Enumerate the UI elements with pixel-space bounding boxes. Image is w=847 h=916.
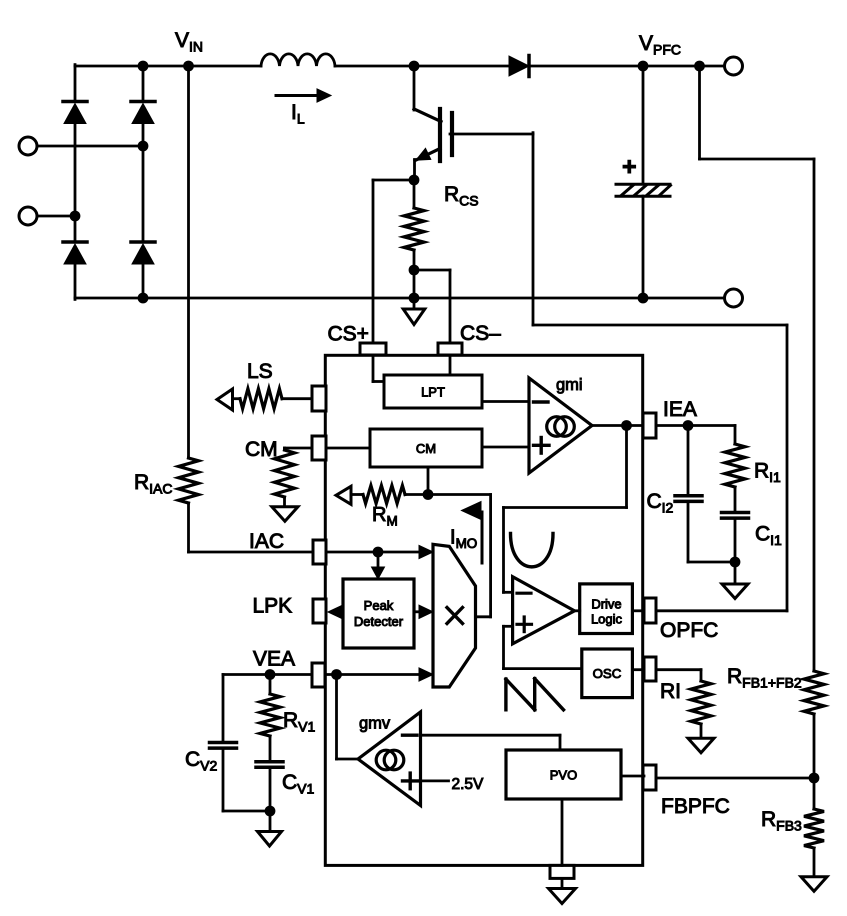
terminal return xyxy=(725,289,743,307)
pin OPFC xyxy=(644,598,656,623)
pin IAC xyxy=(313,540,326,564)
node AC2-bridge xyxy=(70,211,81,222)
node VEA internal xyxy=(331,669,342,680)
label VEA xyxy=(253,648,295,671)
wire VEA external xyxy=(223,673,312,676)
capacitor CI1 xyxy=(722,513,749,519)
svg-text:LPT: LPT xyxy=(421,385,445,400)
svg-text:Detecter: Detecter xyxy=(354,614,404,629)
label CM xyxy=(245,438,278,461)
svg-text:gmi: gmi xyxy=(556,376,583,394)
transistor Q1 emitter xyxy=(415,148,441,180)
label CS- xyxy=(460,322,501,345)
wire OSC-RI xyxy=(632,668,644,671)
svg-text:LPK: LPK xyxy=(253,595,293,618)
svg-text:Peak: Peak xyxy=(364,598,394,613)
diode D boost output xyxy=(509,56,529,77)
diode bridge D1 xyxy=(63,102,87,124)
label IMO xyxy=(450,527,477,552)
block PVO xyxy=(506,750,621,799)
wire gate-OPFC xyxy=(533,133,787,611)
svg-text:RI: RI xyxy=(660,680,681,703)
svg-text:IEA: IEA xyxy=(663,398,697,421)
gmi symbol xyxy=(547,417,575,437)
wire CM-gmi xyxy=(482,446,529,449)
label LPK xyxy=(253,595,293,618)
wire CM external xyxy=(285,448,313,450)
label LS xyxy=(247,360,273,383)
label CV2 xyxy=(185,748,218,774)
open arrow LS xyxy=(217,389,233,410)
wire CV2 upper xyxy=(222,675,225,743)
ramp waveform symbol xyxy=(506,679,564,710)
svg-text:CM: CM xyxy=(245,438,278,461)
capacitor CI2 xyxy=(675,496,702,502)
pin GND xyxy=(550,865,574,878)
svg-text:CI2: CI2 xyxy=(647,490,674,516)
svg-text:LS: LS xyxy=(247,360,273,383)
label IEA xyxy=(663,398,697,421)
resistor RIAC xyxy=(179,458,199,503)
label CI1 xyxy=(755,523,782,549)
capacitor C out polarized xyxy=(616,153,671,196)
label gmi xyxy=(556,376,583,394)
svg-text:CM: CM xyxy=(416,441,436,456)
node AC1-bridge xyxy=(138,141,149,152)
node cap top xyxy=(638,61,649,72)
resistor RV1 xyxy=(260,675,280,737)
wire RV1-CV1 xyxy=(269,736,272,761)
svg-text:VIN: VIN xyxy=(175,29,203,55)
gmi plus xyxy=(534,438,550,454)
label CI2 xyxy=(647,490,674,516)
label 2.5V xyxy=(452,776,485,793)
wire gmv out xyxy=(337,675,359,760)
node RM junction xyxy=(423,489,434,500)
svg-text:RCS: RCS xyxy=(444,183,479,209)
node RCS-rail xyxy=(409,293,420,304)
svg-text:+: + xyxy=(622,153,637,181)
wire FBPFC external xyxy=(656,777,814,780)
svg-text:RI1: RI1 xyxy=(754,460,781,486)
label RCS xyxy=(444,183,479,209)
wire comp out xyxy=(575,609,580,612)
node bridge bottom xyxy=(138,293,149,304)
svg-text:PVO: PVO xyxy=(550,768,577,783)
label RFB3 xyxy=(761,808,802,834)
svg-text:CS–: CS– xyxy=(460,322,501,345)
ground VEA comp xyxy=(258,811,282,846)
pin VEA xyxy=(312,663,325,687)
wire top rail left xyxy=(75,65,261,68)
wire CS+ path xyxy=(373,180,414,382)
label RI1 xyxy=(754,460,781,486)
label CS+ xyxy=(328,323,369,346)
pin FBPFC xyxy=(643,765,656,790)
wire AC1 xyxy=(37,145,143,148)
resistor LS external xyxy=(232,389,312,409)
gmi minus xyxy=(534,400,549,403)
wire gmi out xyxy=(592,424,643,427)
pin CM xyxy=(312,436,326,460)
svg-text:IL: IL xyxy=(291,101,305,127)
wire IEA feedback xyxy=(504,426,627,593)
svg-text:CI1: CI1 xyxy=(755,523,782,549)
arrow IMO xyxy=(462,502,483,564)
resistor RFB1FB2 xyxy=(804,671,824,714)
ground RI xyxy=(688,724,714,753)
svg-text:RV1: RV1 xyxy=(283,709,316,735)
svg-text:CV2: CV2 xyxy=(185,748,218,774)
terminal AC1 xyxy=(19,137,37,155)
terminal VPFC top xyxy=(725,57,743,75)
svg-text:CV1: CV1 xyxy=(282,771,315,797)
wire bridge right vertical xyxy=(142,66,145,298)
op-amp gmi xyxy=(529,378,592,473)
node RCS-CSminus xyxy=(409,265,420,276)
resistor RFB3 xyxy=(804,809,824,848)
pin CS+ xyxy=(360,343,386,355)
wire RCS top xyxy=(413,180,416,208)
block OSC xyxy=(582,649,633,698)
label RFB1+FB2 xyxy=(727,665,802,691)
node IEA inner xyxy=(621,420,632,431)
wire RI external xyxy=(656,670,701,681)
wire RIAC to IAC xyxy=(189,503,314,552)
arrow LPK xyxy=(328,605,343,618)
wire OPFC external xyxy=(656,609,787,612)
wire CI1 bottom xyxy=(734,518,737,562)
wire CV1 bottom xyxy=(269,767,272,811)
svg-text:Logic: Logic xyxy=(591,612,623,627)
node IEA-CI2 xyxy=(683,420,694,431)
svg-text:VEA: VEA xyxy=(253,648,295,671)
pin CS- xyxy=(438,343,462,355)
label IL xyxy=(291,101,305,127)
label IAC xyxy=(249,530,284,553)
gmv symbol xyxy=(376,750,404,770)
svg-text:gmv: gmv xyxy=(359,715,391,733)
label CV1 xyxy=(282,771,315,797)
node VIN junction1 xyxy=(138,61,149,72)
label RI xyxy=(660,680,681,703)
IC U1 body xyxy=(325,355,642,865)
label RV1 xyxy=(283,709,316,735)
svg-text:IAC: IAC xyxy=(249,530,284,553)
wire CMpin-CMblock xyxy=(326,447,370,450)
node collector junction xyxy=(409,61,420,72)
wire cap upper xyxy=(642,66,645,184)
capacitor CV1 xyxy=(256,762,283,768)
wire IAC internal xyxy=(326,545,433,558)
node IAC internal xyxy=(373,547,384,558)
wire CM bottom xyxy=(427,467,430,495)
resistor CM external xyxy=(275,450,295,497)
resistor RM xyxy=(351,486,428,504)
wire VIN sense xyxy=(187,66,190,458)
gmv plus xyxy=(403,773,419,789)
wire CI2 lower xyxy=(688,501,735,562)
node VIN junction2 xyxy=(183,61,194,72)
wire AC2 xyxy=(37,215,75,218)
transistor Q1 gate bar xyxy=(450,113,454,155)
wire top rail right xyxy=(529,65,725,68)
diode bridge D4 xyxy=(131,242,155,264)
svg-text:Drive: Drive xyxy=(591,597,621,612)
label gmv xyxy=(359,715,391,733)
pin IEA xyxy=(643,413,656,438)
resistor RI1 xyxy=(725,426,745,488)
svg-text:OSC: OSC xyxy=(593,666,622,681)
node VEA-RV1 xyxy=(265,669,276,680)
op-amp gmv xyxy=(358,712,421,806)
wire LPT-gmi xyxy=(482,400,529,403)
svg-text:FBPFC: FBPFC xyxy=(661,795,730,818)
diode bridge D2 xyxy=(131,102,155,124)
svg-text:VPFC: VPFC xyxy=(639,32,681,58)
wire PVO gnd xyxy=(561,799,564,865)
ground IC bottom xyxy=(549,878,576,903)
wire bridge left vertical xyxy=(74,65,77,300)
label FBPFC xyxy=(661,795,730,818)
block LPT xyxy=(384,375,482,408)
block Drive Logic xyxy=(580,584,633,634)
node CV1-CV2 xyxy=(265,806,276,817)
node FBPFC xyxy=(809,773,820,784)
ground below RCS xyxy=(403,298,425,325)
label RIAC xyxy=(134,471,173,497)
pin RI xyxy=(644,657,656,681)
block CM xyxy=(370,429,482,467)
wire PVO-FBPFC xyxy=(621,775,644,778)
wire IEA external xyxy=(656,424,735,427)
wire RCS bottom xyxy=(413,250,416,298)
svg-text:RIAC: RIAC xyxy=(134,471,173,497)
open arrow RM xyxy=(336,486,351,504)
ground IEA comp xyxy=(722,562,748,599)
ground CM xyxy=(272,497,298,521)
wire CS- path xyxy=(414,270,450,376)
wire RI1-CI1 xyxy=(734,487,737,513)
svg-text:OPFC: OPFC xyxy=(660,619,718,642)
resistor RI external xyxy=(691,681,711,724)
svg-text:RFB1+FB2: RFB1+FB2 xyxy=(727,665,802,691)
wire bottom rail xyxy=(75,297,725,300)
gmv minus xyxy=(403,734,418,737)
wire CV2 lower xyxy=(223,748,270,811)
comparator plus xyxy=(517,617,532,632)
node CI1-CI2 xyxy=(730,557,741,568)
comparator minus xyxy=(517,592,531,595)
wire comp plus input xyxy=(504,626,582,668)
ground RFB3 xyxy=(801,848,827,891)
wire gmv plus input xyxy=(421,780,449,783)
arrow peakdet-multiplier xyxy=(414,605,433,618)
wire cap lower xyxy=(642,196,645,298)
label RM xyxy=(372,504,398,529)
wire RFB-FBPFC xyxy=(813,714,816,809)
wire right rail xyxy=(700,66,815,671)
svg-text:CS+: CS+ xyxy=(328,323,369,346)
arrow IL current xyxy=(276,89,331,102)
wire CI2 upper xyxy=(687,426,690,496)
node right-rail top xyxy=(694,61,705,72)
wire VEA internal xyxy=(325,668,433,681)
terminal AC2 xyxy=(19,207,37,225)
node emitter xyxy=(409,175,420,186)
transistor Q1 body bar xyxy=(438,109,442,161)
block Peak Detecter xyxy=(343,579,414,648)
comparator U2 xyxy=(513,577,575,644)
pin LPK xyxy=(313,599,326,623)
wire multiplier out xyxy=(428,495,491,617)
wire top rail mid xyxy=(335,65,510,68)
diode bridge D3 xyxy=(63,242,87,264)
multiplier X xyxy=(447,608,463,624)
resistor RCS xyxy=(404,208,424,250)
wire gate xyxy=(450,133,533,136)
capacitor CV2 xyxy=(210,743,237,749)
label OPFC xyxy=(660,619,718,642)
arrow into peak det xyxy=(372,552,385,579)
svg-text:IMO: IMO xyxy=(450,527,477,552)
svg-text:RFB3: RFB3 xyxy=(761,808,802,834)
pin LS xyxy=(312,386,326,411)
node cap bottom xyxy=(638,293,649,304)
svg-text:2.5V: 2.5V xyxy=(452,776,485,793)
inductor L boost xyxy=(261,54,335,66)
label VPFC xyxy=(639,32,681,58)
current waveform symbol xyxy=(511,534,554,567)
wire gmv minus input xyxy=(421,735,561,750)
node VIN label xyxy=(175,29,203,55)
wire collector xyxy=(414,64,441,122)
multiplier xyxy=(433,544,476,687)
wire DriveLogic-OPFC xyxy=(632,609,644,612)
